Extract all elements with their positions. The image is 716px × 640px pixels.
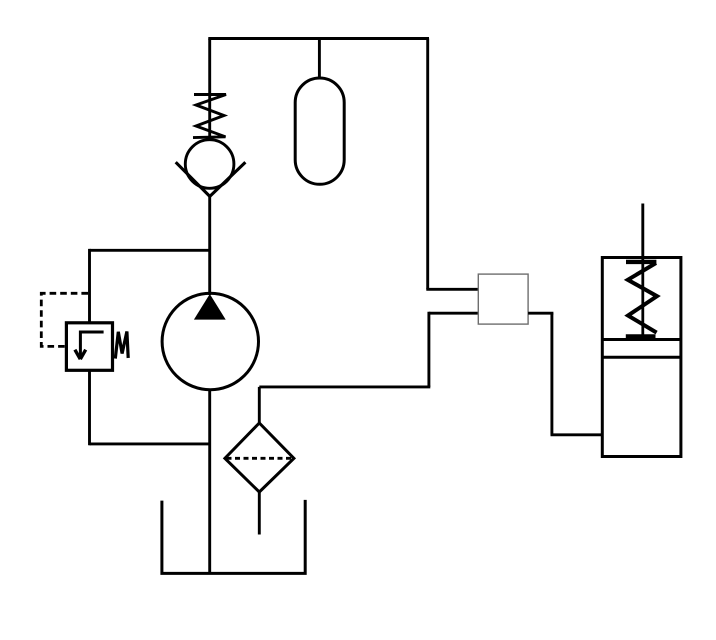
- filter element (dashed line): [227, 457, 293, 460]
- wire valve right port stub: [528, 312, 553, 315]
- check valve seat (V): [176, 162, 246, 196]
- cylinder return spring bottom bar: [626, 334, 656, 338]
- relief valve flow arrow: [80, 332, 103, 356]
- wire cylinder feed horizontal: [551, 433, 603, 436]
- relief valve V1 body (square): [66, 323, 112, 371]
- tank / reservoir: [162, 500, 305, 574]
- cylinder piston (two lines): [602, 340, 681, 358]
- cylinder return spring top bar: [626, 260, 656, 264]
- wire relief branch left vertical upper: [88, 249, 91, 323]
- wire valve to filter horizontal: [259, 385, 430, 388]
- check valve ball (circle): [185, 140, 234, 189]
- wire accumulator drop: [318, 39, 321, 80]
- pump outlet triangle (filled): [194, 294, 226, 320]
- wire valve upper port stub: [426, 288, 478, 291]
- accumulator (capsule): [295, 78, 344, 184]
- wire relief branch left vertical lower: [88, 370, 91, 445]
- wire relief branch top horizontal: [90, 249, 212, 252]
- spring of check valve: [193, 95, 226, 138]
- wire check valve to pump outlet: [208, 197, 211, 296]
- wire relief branch bottom horizontal: [90, 442, 211, 445]
- cylinder piston rod: [641, 204, 644, 260]
- pilot line (dashed) of relief valve: [41, 293, 88, 346]
- cylinder C1 body: [602, 258, 681, 457]
- wire filter drain stub: [258, 492, 261, 535]
- filter F1 (diamond): [225, 423, 294, 492]
- wire check valve riser (top line to check valve): [208, 39, 211, 142]
- cylinder spring guide rod: [641, 259, 644, 336]
- cylinder return spring zigzag: [628, 263, 657, 333]
- pump P1 (circle): [162, 293, 258, 389]
- wire valve lower port stub: [429, 312, 478, 315]
- wire pump suction to tank: [208, 390, 211, 574]
- valve placeholder box (gray square): [478, 274, 528, 324]
- wire filter riser: [258, 387, 261, 425]
- wire right main vertical: [426, 39, 429, 290]
- wire cylinder feed vertical: [550, 313, 553, 435]
- relief valve spring (M symbol): [115, 332, 128, 359]
- wire valve lower vertical: [427, 312, 430, 387]
- wire top manifold horizontal: [208, 37, 429, 40]
